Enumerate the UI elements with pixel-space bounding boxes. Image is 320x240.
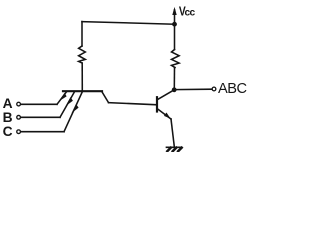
wire output to terminal <box>174 88 211 90</box>
wire Q1 collector to Q2 base <box>109 103 158 105</box>
terminal circle input C <box>17 130 21 134</box>
resistor R1 <box>79 46 86 63</box>
transistor Q1 emitter 3 (input C) <box>64 92 82 132</box>
node Vcc junction dot <box>172 22 177 27</box>
transistor Q1 emitter 1 (input A) <box>57 92 67 105</box>
svg-text:C: C <box>3 124 13 139</box>
transistor Q2 emitter lead with arrow <box>158 109 172 119</box>
svg-text:A: A <box>3 96 13 111</box>
svg-text:B: B <box>3 110 13 125</box>
transistor Q1 collector lead <box>102 92 109 103</box>
terminal circle input A <box>17 102 21 106</box>
resistor R2 <box>172 50 180 68</box>
wire top rail from R1 top corner to Vcc junction <box>82 22 175 25</box>
transistor Q2 collector lead <box>158 90 175 100</box>
node collector junction dot <box>172 87 177 92</box>
wire input C horizontal <box>21 131 64 133</box>
svg-text:ABC: ABC <box>218 81 247 97</box>
wire R2 top lead <box>174 24 176 49</box>
transistor Q2 base bar <box>156 97 158 111</box>
transistor Q1 emitter 2 (input B) <box>60 92 75 118</box>
transistor Q1 multi-emitter base bar <box>63 90 102 92</box>
wire Q2 emitter to ground <box>171 119 174 147</box>
wire R1 bottom lead to Q1 base <box>81 63 83 91</box>
wire input B horizontal <box>21 116 60 118</box>
terminal circle input B <box>17 115 21 119</box>
wire R2 bottom lead to collector node <box>173 68 175 90</box>
label Vcc <box>179 3 196 19</box>
Vcc arrow symbol <box>172 7 176 24</box>
wire input A horizontal <box>21 103 57 105</box>
wire R1 top lead <box>81 22 83 46</box>
svg-text:cc: cc <box>185 8 196 19</box>
terminal circle output <box>212 87 216 91</box>
ground <box>167 147 182 151</box>
